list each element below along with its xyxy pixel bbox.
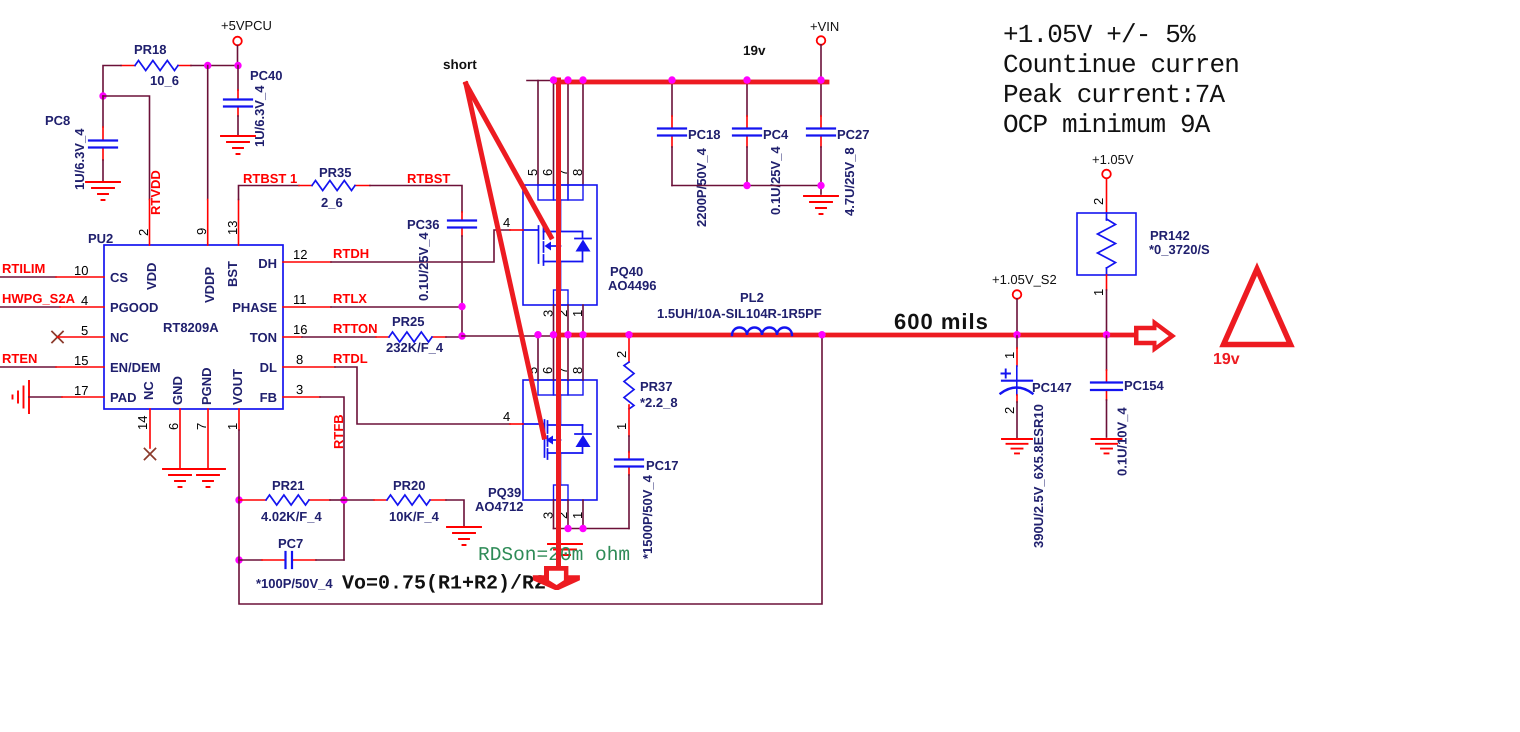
svg-text:PC17: PC17 [646,458,679,473]
svg-text:OCP minimum 9A: OCP minimum 9A [1003,110,1211,140]
svg-text:RTILIM: RTILIM [2,261,45,276]
pin 2 VDD stub [136,200,151,246]
junction dot PC27 bottom [817,182,824,189]
annotation warning triangle [1224,269,1291,345]
resistor PR35 2_6 [299,165,370,210]
junction dot +5VPCU drop [234,62,241,69]
svg-text:DH: DH [258,256,277,271]
svg-text:232K/F_4: 232K/F_4 [386,340,444,355]
svg-text:RTEN: RTEN [2,351,37,366]
wire PR18 right to +5VPCU node [191,65,238,67]
svg-text:RT8209A: RT8209A [163,320,219,335]
capacitor PC17 *1500P/50V_4 [615,436,679,559]
pin 9 VDDP stub [194,200,209,246]
svg-text:16: 16 [293,322,307,337]
annotation thick output line [556,333,1135,338]
svg-text:RTTON: RTTON [333,321,378,336]
junction dot S2/output [1013,331,1020,338]
ground under pin 7 [191,469,225,487]
junction dot VOUT/PC7 [235,556,242,563]
svg-text:short: short [443,57,477,72]
power flag +VIN [810,19,839,80]
net RTBST_1 wire from BST pin [239,171,300,200]
inductor PL2 coils (over annotation) [732,328,792,336]
svg-text:+1.05V_S2: +1.05V_S2 [992,272,1057,287]
transistor PQ39 mosfet symbol [523,395,591,485]
annotation diagonal to PQ39 gate [466,84,544,437]
svg-text:0.1U/25V_4: 0.1U/25V_4 [416,232,431,301]
svg-text:Vo=0.75(R1+R2)/R2: Vo=0.75(R1+R2)/R2 [342,573,546,596]
pin 12 DH / net RTDH [283,230,510,262]
power flag +1.05V_S2 [992,272,1057,336]
svg-text:PU2: PU2 [88,231,113,246]
capacitor PC154 0.1U/10V_4 [1091,336,1165,476]
svg-text:PQ40: PQ40 [610,264,643,279]
drain pins PQ39 from phase [538,336,583,380]
svg-text:1U/6.3V_4: 1U/6.3V_4 [72,128,87,190]
svg-text:+5VPCU: +5VPCU [221,18,272,33]
svg-text:10: 10 [74,263,88,278]
junction dots on 19v bus (top layer) [550,76,557,83]
svg-text:Peak current:7A: Peak current:7A [1003,80,1226,110]
svg-text:2: 2 [614,351,629,358]
svg-text:*1500P/50V_4: *1500P/50V_4 [640,474,655,559]
resistor PR37 *2.2_8 [614,336,678,436]
inductor PL2 1.5UH [657,290,822,336]
svg-text:19v: 19v [743,43,766,58]
transistor PQ40 mosfet symbol [523,200,591,290]
capacitor PC4 0.1U/25V_4 [733,81,789,216]
pin 11 PHASE / net RTLX [283,291,462,307]
svg-text:CS: CS [110,270,128,285]
junction dots source node [564,525,571,532]
wire PC36 down to phase [461,236,463,336]
svg-text:VDDP: VDDP [202,267,217,303]
svg-text:1: 1 [1002,352,1017,359]
svg-text:9: 9 [194,228,209,235]
svg-text:12: 12 [293,247,307,262]
wire PR18 left to PC8 node [103,66,121,97]
junction node PC8/RTVDD [99,92,106,99]
svg-text:4.7U/25V_8: 4.7U/25V_8 [842,147,857,216]
junction dot PC4 bottom [743,182,750,189]
svg-text:5: 5 [525,169,540,176]
svg-text:8: 8 [570,169,585,176]
svg-text:PR21: PR21 [272,478,305,493]
wire PR142 to output [1091,275,1107,336]
capacitor PC147 390U/2.5V electrolytic [1001,336,1072,548]
wire VOUT down and bottom feedback run [239,336,822,604]
svg-text:PQ39: PQ39 [488,485,521,500]
power flag +1.05V [1091,152,1134,213]
capacitor PC8 1U/6.3V_4 [45,96,117,190]
svg-text:AO4712: AO4712 [475,499,523,514]
transistor PQ39 AO4712 body [475,367,597,519]
junction dot FB/PR21 [340,496,347,503]
note block top right [1003,20,1239,140]
svg-text:PGND: PGND [199,367,214,405]
svg-text:2200P/50V_4: 2200P/50V_4 [694,147,709,227]
svg-text:PHASE: PHASE [232,300,277,315]
svg-text:1.5UH/10A-SIL104R-1R5PF: 1.5UH/10A-SIL104R-1R5PF [657,306,822,321]
pin 17 PAD with ground (rotated) [13,381,105,413]
wire VDDP branch down [207,66,209,200]
svg-text:1: 1 [614,423,629,430]
svg-text:1U/6.3V_4: 1U/6.3V_4 [252,85,267,147]
svg-text:14: 14 [135,416,150,430]
svg-text:Countinue curren: Countinue curren [1003,50,1239,80]
junction dot VDDP branch [204,62,211,69]
svg-text:BST: BST [225,261,240,287]
svg-text:HWPG_S2A: HWPG_S2A [2,291,76,306]
svg-text:RTDH: RTDH [333,246,369,261]
svg-text:NC: NC [110,330,129,345]
svg-text:*2.2_8: *2.2_8 [640,395,678,410]
junction dot TON/phase [458,332,465,339]
svg-text:2: 2 [1091,198,1106,205]
svg-text:2: 2 [1002,407,1017,414]
ground under pin 6 [163,469,197,487]
pin 7 PGND bottom [194,409,209,468]
svg-text:PL2: PL2 [740,290,764,305]
svg-text:RTFB: RTFB [331,414,346,449]
svg-text:PR20: PR20 [393,478,426,493]
ground under PC154 [1092,439,1122,453]
svg-text:PC40: PC40 [250,68,283,83]
annotation thick short-circuit vertical [556,80,561,566]
svg-text:PC7: PC7 [278,536,303,551]
svg-text:VDD: VDD [144,263,159,290]
annotation hollow arrow down [533,566,580,590]
annotation thick 19v bus [556,80,827,85]
svg-text:8: 8 [296,352,303,367]
svg-text:PR18: PR18 [134,42,167,57]
IC PU2 RT8209A body [88,231,283,409]
ground under PQ39 [548,544,582,555]
resistor PR142 *0_3720/S (boxed) [1077,213,1210,275]
svg-text:6: 6 [540,169,555,176]
svg-text:TON: TON [250,330,277,345]
capacitor PC40 1U/6.3V_4 [224,66,283,148]
resistor PR21 4.02K/F_4 [239,478,344,524]
svg-text:600 mils: 600 mils [894,309,989,334]
capacitor PC36 0.1U/25V_4 [407,212,476,301]
pin 14 NC bottom with X [135,409,156,460]
pin 4 PGOOD / net HWPG_S2A [0,291,104,308]
svg-text:PC18: PC18 [688,127,721,142]
svg-text:*0_3720/S: *0_3720/S [1149,242,1210,257]
capacitor PC18 2200P/50V_4 [658,81,721,228]
junction dot PR142/output [1103,331,1110,338]
svg-text:PC4: PC4 [763,127,789,142]
annotation diagonal to PQ40 gate [466,84,551,237]
ground under PC147 [1002,439,1032,453]
svg-text:PR37: PR37 [640,379,673,394]
svg-text:2_6: 2_6 [321,195,343,210]
wire joining cap bottoms [672,185,821,187]
pin 3 FB / net RTFB [283,382,346,560]
svg-text:GND: GND [170,376,185,405]
wire 19v bus thin start [527,80,827,82]
svg-text:PC8: PC8 [45,113,70,128]
svg-text:4: 4 [81,293,88,308]
svg-text:11: 11 [293,292,307,307]
svg-text:13: 13 [225,221,240,235]
svg-text:EN/DEM: EN/DEM [110,360,161,375]
svg-text:PC147: PC147 [1032,380,1072,395]
svg-text:RDSon=20m ohm: RDSon=20m ohm [478,544,630,566]
svg-text:RTBST: RTBST [407,171,450,186]
svg-text:17: 17 [74,383,88,398]
svg-text:RTDL: RTDL [333,351,368,366]
svg-text:PC27: PC27 [837,127,870,142]
svg-text:PAD: PAD [110,390,136,405]
ground under PC8 [86,182,120,200]
phase node wire [462,335,1107,337]
svg-text:NC: NC [141,381,156,400]
svg-text:*100P/50V_4: *100P/50V_4 [256,576,333,591]
pin 8 DL / net RTDL [283,351,510,424]
resistor PR18 10_6 [121,42,191,88]
svg-text:10K/F_4: 10K/F_4 [389,509,440,524]
svg-text:PR25: PR25 [392,314,425,329]
svg-text:1: 1 [1091,289,1106,296]
svg-text:PC154: PC154 [1124,378,1165,393]
svg-text:AO4496: AO4496 [608,278,656,293]
svg-text:6: 6 [166,423,181,430]
pin 4 gate stub PQ39 [503,409,523,424]
svg-text:4.02K/F_4: 4.02K/F_4 [261,509,322,524]
pin 1 VOUT bottom [225,409,240,430]
pin 10 CS / net RTILIM [0,261,104,278]
svg-text:+1.05V +/- 5%: +1.05V +/- 5% [1003,20,1196,50]
annotation hollow arrow right [1134,319,1176,354]
pin 16 TON / net RTTON [283,321,378,337]
junction dot RTLX [458,303,465,310]
svg-text:RTBST 1: RTBST 1 [243,171,297,186]
svg-text:15: 15 [74,353,88,368]
svg-text:PGOOD: PGOOD [110,300,158,315]
svg-text:3: 3 [296,382,303,397]
svg-text:FB: FB [260,390,277,405]
capacitor PC27 4.7U/25V_8 [807,81,870,217]
net RTBST wire to PC36 [370,171,462,212]
source pins PQ39 down [554,500,584,529]
svg-text:0.1U/25V_4: 0.1U/25V_4 [768,146,783,215]
svg-text:10_6: 10_6 [150,73,179,88]
svg-text:PC36: PC36 [407,217,440,232]
pin 6 GND bottom [166,409,181,468]
svg-text:4: 4 [503,215,510,230]
source pins PQ40 to phase [554,305,584,336]
svg-text:2: 2 [136,229,151,236]
svg-text:+VIN: +VIN [810,19,839,34]
svg-text:DL: DL [260,360,277,375]
svg-text:7: 7 [194,423,209,430]
pin 13 BST stub [225,200,240,246]
svg-text:4: 4 [503,409,510,424]
svg-text:PR142: PR142 [1150,228,1190,243]
ground under PC27 [804,196,838,214]
capacitor PC7 *100P/50V_4 [239,536,344,591]
junction dot VOUT/PR21 [235,496,242,503]
ground under PC40 [221,136,255,154]
junction dots on phase node (top layer) [534,331,541,338]
svg-text:+1.05V: +1.05V [1092,152,1134,167]
svg-text:19v: 19v [1213,351,1240,368]
wire drain pins to bus [538,81,583,186]
resistor PR25 232K/F_4 [376,314,462,355]
svg-text:1: 1 [225,423,240,430]
svg-text:5: 5 [81,323,88,338]
svg-text:VOUT: VOUT [230,369,245,405]
pin 15 EN/DEM / net RTEN [0,351,104,368]
svg-text:PR35: PR35 [319,165,352,180]
svg-text:RTLX: RTLX [333,291,367,306]
svg-text:0.1U/10V_4: 0.1U/10V_4 [1115,407,1130,476]
power flag +5VPCU [221,18,272,66]
pin 4 gate stub PQ40 [503,215,523,230]
wire node to VDD pin [103,96,150,200]
pin 5 NC no-connect X [52,323,104,343]
transistor PQ40 AO4496 body [523,169,656,317]
svg-text:390U/2.5V_6X5.8ESR10: 390U/2.5V_6X5.8ESR10 [1031,404,1046,548]
resistor PR20 10K/F_4 [344,478,464,526]
ground under PR20 [447,527,481,545]
wire source node to PC17 [554,528,630,530]
